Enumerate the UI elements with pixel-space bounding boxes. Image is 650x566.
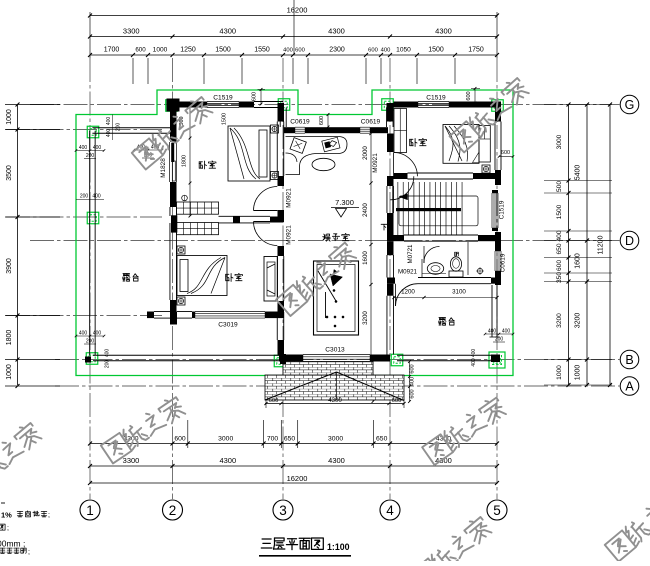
svg-text:3100: 3100 — [452, 289, 466, 296]
svg-text:400: 400 — [471, 358, 477, 367]
svg-text:1500: 1500 — [222, 113, 228, 125]
svg-text:4300: 4300 — [219, 456, 236, 465]
svg-text:3200: 3200 — [362, 311, 369, 325]
svg-text:1250: 1250 — [180, 47, 196, 54]
svg-text:2300: 2300 — [329, 47, 345, 54]
svg-text:500: 500 — [556, 181, 563, 192]
svg-text:2: 2 — [169, 503, 177, 518]
svg-text:600: 600 — [392, 398, 402, 404]
svg-text:600: 600 — [295, 48, 305, 54]
svg-text:C3013: C3013 — [325, 347, 345, 354]
svg-text:3000: 3000 — [328, 436, 343, 443]
svg-text:5400: 5400 — [575, 165, 582, 181]
svg-text:1000: 1000 — [153, 47, 168, 54]
svg-text:1%: 1% — [1, 511, 12, 520]
svg-text:;: ; — [28, 549, 30, 556]
svg-text:3300: 3300 — [123, 456, 140, 465]
svg-text:1700: 1700 — [104, 47, 120, 54]
svg-text:1600: 1600 — [575, 253, 582, 269]
svg-text:600: 600 — [556, 260, 563, 271]
svg-text:11200: 11200 — [598, 235, 605, 254]
svg-text:3000: 3000 — [556, 134, 563, 149]
svg-text:3500: 3500 — [6, 165, 13, 181]
svg-text:C3019: C3019 — [218, 322, 238, 329]
svg-text:C0619: C0619 — [361, 119, 381, 126]
svg-text:;: ; — [48, 512, 50, 519]
svg-text:3300: 3300 — [123, 27, 140, 36]
svg-text:1500: 1500 — [215, 47, 231, 54]
svg-text:C1519: C1519 — [426, 95, 446, 102]
svg-text:M1828: M1828 — [160, 158, 167, 178]
svg-text:4300: 4300 — [328, 397, 342, 404]
svg-text:400: 400 — [106, 117, 112, 126]
svg-text:600: 600 — [410, 364, 416, 373]
svg-text:400: 400 — [79, 145, 88, 151]
svg-text:4300: 4300 — [435, 27, 452, 36]
svg-text:4: 4 — [386, 503, 394, 518]
svg-text:400: 400 — [471, 349, 477, 358]
svg-text:1000: 1000 — [575, 365, 582, 381]
svg-text:1: 1 — [86, 503, 94, 518]
svg-text:16200: 16200 — [287, 6, 308, 15]
svg-text:600: 600 — [135, 47, 146, 54]
svg-text:C0619: C0619 — [290, 119, 310, 126]
svg-text:1050: 1050 — [396, 47, 411, 54]
svg-text:D: D — [625, 234, 634, 248]
svg-text:600: 600 — [466, 91, 472, 100]
svg-text:400: 400 — [106, 129, 112, 138]
svg-text:400: 400 — [93, 331, 102, 337]
svg-text:1800: 1800 — [6, 330, 13, 346]
svg-text:M0921: M0921 — [286, 225, 293, 245]
svg-text:3200: 3200 — [575, 313, 582, 329]
svg-text:200: 200 — [86, 153, 95, 159]
svg-text:200: 200 — [80, 194, 89, 200]
svg-text:400: 400 — [410, 377, 416, 386]
svg-text:G: G — [625, 98, 635, 112]
svg-text:4300: 4300 — [219, 27, 236, 36]
svg-text:600: 600 — [501, 150, 510, 156]
svg-text:1500: 1500 — [428, 47, 444, 54]
svg-text:3: 3 — [279, 503, 287, 518]
svg-text:600: 600 — [252, 92, 258, 101]
svg-text:1750: 1750 — [468, 47, 484, 54]
svg-text:C1519: C1519 — [499, 200, 506, 219]
svg-text:4300: 4300 — [328, 27, 345, 36]
svg-text:600: 600 — [410, 389, 416, 398]
svg-text:600: 600 — [368, 48, 378, 54]
svg-text:200: 200 — [105, 360, 111, 369]
svg-text:4300: 4300 — [328, 456, 345, 465]
svg-text:200: 200 — [86, 339, 95, 345]
svg-text:1500: 1500 — [556, 204, 563, 219]
svg-text:M0721: M0721 — [407, 244, 414, 263]
svg-text:1000: 1000 — [556, 365, 563, 380]
svg-text:M0921: M0921 — [286, 188, 293, 208]
svg-text:5: 5 — [493, 503, 501, 518]
svg-text:M0921: M0921 — [372, 153, 379, 173]
svg-text:650: 650 — [284, 436, 296, 443]
svg-text:700: 700 — [267, 436, 279, 443]
svg-text:3000: 3000 — [218, 436, 233, 443]
svg-text:400: 400 — [556, 230, 563, 241]
svg-text:650: 650 — [376, 436, 388, 443]
svg-text:200: 200 — [495, 337, 504, 343]
svg-text:400: 400 — [92, 194, 101, 200]
svg-text:400: 400 — [283, 48, 293, 54]
svg-text:400: 400 — [79, 331, 88, 337]
svg-text:M0921: M0921 — [398, 269, 417, 276]
svg-text:7.300: 7.300 — [335, 198, 354, 207]
svg-text:1000: 1000 — [6, 364, 13, 380]
svg-text:00mm ;: 00mm ; — [0, 539, 25, 549]
svg-text:1600: 1600 — [362, 251, 369, 265]
svg-text:1200: 1200 — [401, 289, 415, 296]
svg-text:1:100: 1:100 — [327, 542, 350, 552]
svg-text:1000: 1000 — [6, 109, 13, 125]
svg-text:400: 400 — [93, 145, 102, 151]
svg-text:16200: 16200 — [287, 474, 308, 483]
svg-text:200: 200 — [116, 123, 122, 132]
svg-text:600: 600 — [269, 398, 279, 404]
svg-text:400: 400 — [381, 48, 391, 54]
svg-text:C1519: C1519 — [213, 95, 233, 102]
svg-text:1550: 1550 — [254, 47, 270, 54]
svg-text:600: 600 — [174, 436, 186, 443]
svg-text:1800: 1800 — [182, 155, 188, 167]
svg-text:2000: 2000 — [362, 146, 369, 160]
svg-text:C0619: C0619 — [500, 253, 507, 272]
svg-text:3900: 3900 — [6, 258, 13, 274]
svg-text:650: 650 — [556, 243, 563, 254]
svg-text:400: 400 — [502, 329, 511, 335]
svg-text:600: 600 — [319, 116, 325, 125]
svg-text:A: A — [625, 380, 634, 394]
svg-text:;: ; — [7, 525, 9, 532]
svg-text:400: 400 — [105, 349, 111, 358]
svg-text:2400: 2400 — [362, 203, 369, 217]
svg-text:B: B — [625, 353, 633, 367]
svg-text:3200: 3200 — [556, 313, 563, 328]
svg-text:400: 400 — [488, 329, 497, 335]
